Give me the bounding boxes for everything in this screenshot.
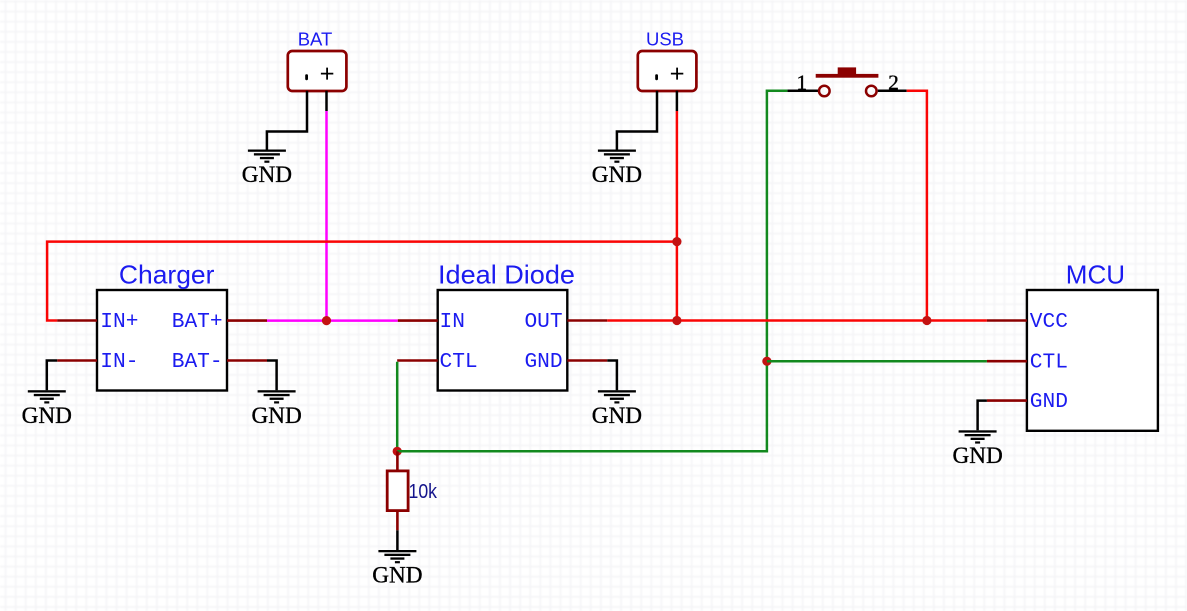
svg-text:IN+: IN+ (100, 310, 138, 334)
ground GND (charger battery minus) (251, 390, 301, 429)
wire USB+ red vertical (676, 111, 679, 321)
junction CTL net at resistor (393, 447, 402, 456)
svg-text:GND: GND (22, 403, 72, 429)
ground GND (under BAT) (242, 150, 292, 189)
pin GND stub (MCU) (987, 399, 1027, 402)
svg-text:GND: GND (372, 563, 422, 589)
connector USB (638, 51, 697, 91)
svg-text:10k: 10k (409, 481, 438, 503)
pin OUT stub (567, 319, 607, 322)
ground GND (ideal diode) (592, 390, 642, 429)
junction at USB riser and top feed (672, 237, 681, 246)
svg-text:GND: GND (592, 403, 642, 429)
svg-text:VCC: VCC (1030, 310, 1068, 334)
wire resistor to ground (396, 530, 399, 550)
svg-text:CTL: CTL (440, 350, 478, 374)
junction battery net (322, 316, 331, 325)
svg-text:1: 1 (796, 71, 807, 95)
svg-text:2: 2 (888, 71, 899, 95)
wire charger IN- to ground (47, 361, 57, 391)
svg-text:IN: IN (440, 310, 465, 334)
ground GND (under USB) (592, 150, 642, 189)
wire ideal diode GND pin to ground (607, 361, 617, 391)
ground GND (charger input) (22, 390, 72, 429)
svg-text:BAT-: BAT- (172, 350, 223, 374)
svg-text:GND: GND (524, 350, 562, 374)
wire BAT+ magenta vertical (325, 111, 328, 321)
svg-text:OUT: OUT (524, 310, 562, 334)
wire red top horizontal to charger input (47, 242, 677, 321)
wire button pin2 to VCC riser (red) (907, 91, 927, 321)
pin IN+ stub (57, 319, 97, 322)
wire BAT+ magenta horizontal (267, 319, 398, 322)
svg-text:USB: USB (646, 29, 684, 50)
resistor R1 10k (387, 451, 408, 530)
svg-text:MCU: MCU (1066, 260, 1125, 290)
svg-text:Charger: Charger (119, 260, 215, 290)
IC Ideal Diode box (438, 290, 568, 391)
pin BAT- stub (227, 359, 267, 362)
svg-text:GND: GND (1030, 390, 1068, 414)
junction OUT at USB riser (672, 316, 681, 325)
pin IN stub (398, 319, 438, 322)
wire CTL green bottom run to button pin1 (397, 91, 787, 452)
push button S1 (787, 67, 906, 96)
wire BAT minus pin to ground (267, 91, 307, 150)
svg-text:GND: GND (251, 403, 301, 429)
svg-text:GND: GND (242, 162, 292, 188)
pin GND stub (567, 359, 607, 362)
svg-text:BAT+: BAT+ (172, 310, 223, 334)
svg-text:GND: GND (592, 162, 642, 188)
ground GND (MCU) (952, 430, 1002, 469)
svg-text:Ideal Diode: Ideal Diode (438, 260, 575, 290)
pin stub BAT plus (black) (325, 91, 328, 111)
connector BAT (288, 51, 347, 91)
pin CTL stub (MCU) (987, 360, 1027, 363)
svg-text:IN-: IN- (100, 350, 138, 374)
wire CTL green to MCU (767, 360, 987, 363)
junction CTL net to MCU (762, 357, 771, 366)
IC Charger box (97, 290, 227, 391)
pin IN- stub (57, 359, 97, 362)
pin stub USB plus (black) (676, 91, 679, 111)
wire CTL green vertical to pulldown (396, 362, 399, 452)
svg-text:CTL: CTL (1030, 351, 1068, 375)
ground GND (pulldown) (372, 550, 422, 589)
IC MCU box (1027, 290, 1158, 431)
svg-text:GND: GND (952, 443, 1002, 469)
wire charger BAT- to ground (267, 361, 277, 391)
wire MCU GND pin to ground (978, 401, 987, 431)
pin VCC stub (987, 319, 1027, 322)
junction VCC at button riser (922, 316, 931, 325)
pin BAT+ stub (227, 319, 267, 322)
pin CTL stub (397, 359, 438, 362)
wire USB minus pin to ground (617, 91, 657, 150)
wire OUT red horizontal to MCU VCC (607, 319, 987, 322)
svg-text:BAT: BAT (298, 29, 333, 50)
